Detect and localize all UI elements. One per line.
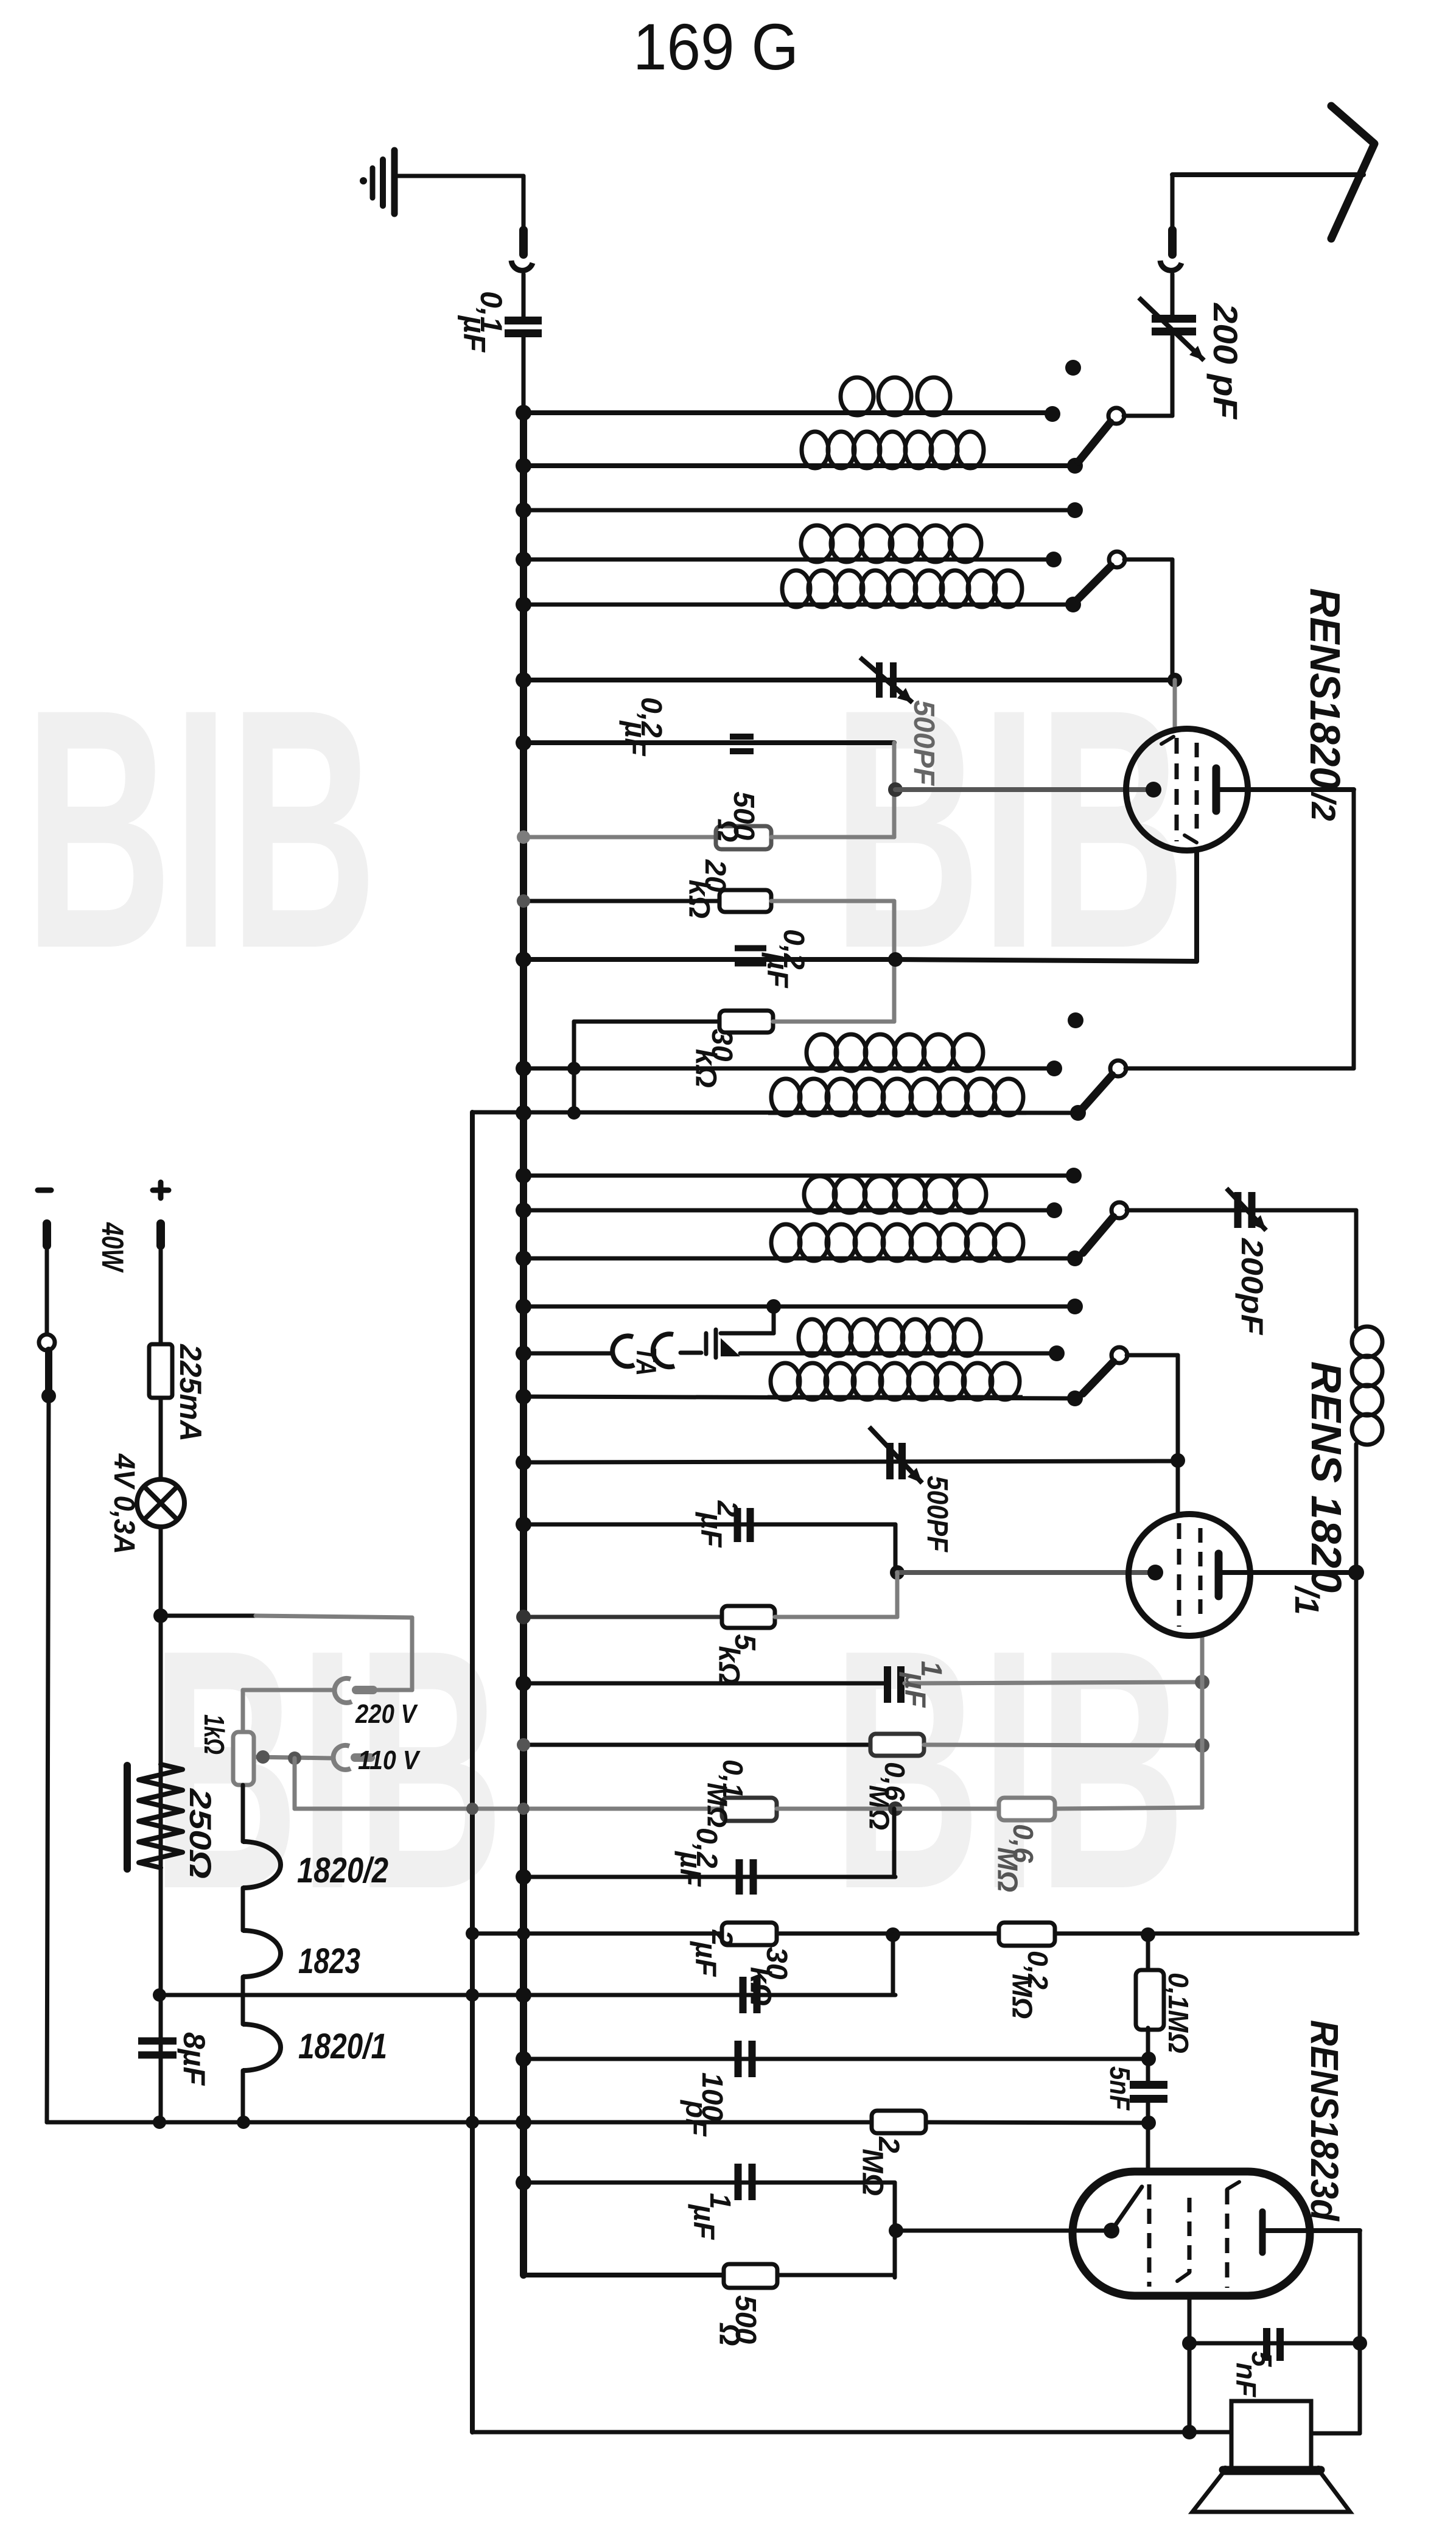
resistor 30kOhm + 0,2MOhm AF [466, 1923, 1357, 2019]
switch S1 [1065, 360, 1172, 461]
resistor 500 Ohm cathode V3 [523, 2253, 895, 2346]
svg-text:1kΩ: 1kΩ [198, 1714, 230, 1755]
capacitor 2uF cathode V2 [516, 1500, 895, 1573]
svg-text:MΩ: MΩ [1007, 1974, 1038, 2019]
svg-text:500PF: 500PF [908, 700, 940, 787]
svg-text:MΩ: MΩ [992, 1847, 1024, 1892]
capacitor 1uF cathode V3 [516, 2164, 1107, 2277]
svg-text:8µF: 8µF [177, 2032, 211, 2086]
tube V2 RENS1820/1 [1129, 1361, 1357, 1636]
antenna [1172, 106, 1374, 239]
svg-text:kΩ: kΩ [683, 880, 715, 919]
watermark BIB [24, 638, 1186, 1960]
resistor 5kOhm cathode V2 [516, 1573, 897, 1685]
capacitor 100pF [516, 2041, 1156, 2137]
wire L8 coil row [516, 1034, 1062, 1076]
switch S4 + variable capacitor 200pF osc [1083, 1188, 1356, 1336]
wire + trimmer 500PF IF [516, 1427, 1185, 1552]
svg-text:169 G: 169 G [633, 10, 799, 83]
mains tap 220V [161, 1616, 418, 1732]
wire L13 row [516, 1299, 1083, 1314]
svg-text:pF: pF [680, 2099, 712, 2137]
svg-text:250Ω: 250Ω [183, 1788, 217, 1879]
capacitor 0,2uF AF [516, 1809, 895, 1895]
second bus vertical [470, 1112, 475, 2432]
speaker [1192, 2343, 1360, 2512]
svg-text:Ω: Ω [712, 819, 744, 842]
capacitor 2uF row [153, 1929, 895, 2013]
resistor 2MOhm grid V3 [47, 2111, 1156, 2196]
resistor 0,1MOhm vertical [1136, 1935, 1194, 2084]
svg-text:500PF: 500PF [921, 1476, 953, 1552]
svg-text:/2: /2 [1304, 791, 1343, 821]
resistor 0,1MOhm + 0,6MOhm b grid bias row [295, 1636, 1202, 1892]
svg-text:200pF: 200pF [1235, 1238, 1269, 1336]
main bus vertical [520, 409, 527, 2275]
svg-text:BIB: BIB [24, 638, 377, 1019]
resistor 30kOhm screen [574, 1011, 894, 1113]
wire L9 coil row [472, 1079, 1086, 1121]
svg-text:1820/1: 1820/1 [298, 2027, 387, 2066]
phono jack TA + coil row L14 [516, 1306, 1065, 1376]
capacitor 5nF anode V3 [1182, 2231, 1367, 2432]
svg-text:Ω: Ω [713, 2323, 746, 2346]
svg-text:BIB: BIB [151, 1579, 504, 1960]
lamp 4V 0,3A [108, 1453, 184, 1995]
svg-text:0,1MΩ: 0,1MΩ [1163, 1972, 1194, 2053]
antenna jack J2 [1160, 175, 1181, 319]
wire L6 row + trimmer 500PF [516, 657, 1182, 787]
terminal minus [38, 1190, 51, 1334]
resistor 250 Ohm [127, 1527, 217, 2122]
wire L11 coil row [516, 1176, 1062, 1218]
wire row + capacitor 0,2uF grid V1 [516, 697, 894, 757]
capacitor 5nF grid V3 [1104, 2066, 1167, 2123]
wire L10 row [516, 1168, 1082, 1183]
capacitor 0,1uF antenna [458, 291, 542, 413]
resistor 500 Ohm cathode V1 [517, 791, 894, 849]
terminal plus [153, 1182, 169, 1344]
tube V1 RENS1820/2 [1126, 588, 1354, 850]
svg-text:5nF: 5nF [1104, 2066, 1136, 2111]
label 40W [96, 1222, 130, 1273]
svg-text:MΩ: MΩ [702, 1783, 733, 1828]
svg-text:1820/2: 1820/2 [297, 1851, 388, 1890]
switch S2 [1078, 552, 1172, 676]
svg-text:200 pF: 200 pF [1206, 303, 1245, 420]
svg-text:µF: µF [690, 1940, 722, 1977]
title 169 G [633, 10, 799, 83]
svg-text:TA: TA [631, 1347, 662, 1376]
wire bottom row [472, 2425, 1231, 2439]
svg-text:kΩ: kΩ [713, 1646, 745, 1685]
wire L15 coil row [516, 1363, 1083, 1406]
svg-text:110 V: 110 V [358, 1745, 421, 1775]
resistor 0,6MOhm a [517, 1734, 1209, 1830]
capacitor 1uF [516, 1661, 1209, 1708]
ground [360, 150, 523, 214]
resistor 20kOhm [517, 859, 894, 1022]
resistor 1kOhm tap + 110V [198, 1714, 421, 1809]
fuse 225mA [149, 1344, 208, 1480]
svg-text:225mA: 225mA [173, 1344, 208, 1442]
wire L3 row [516, 502, 1083, 518]
switch S3 [1068, 790, 1354, 1108]
wire L5 coil row [516, 570, 1081, 612]
svg-text:/1: /1 [1288, 1585, 1326, 1615]
svg-text:220 V: 220 V [355, 1699, 418, 1729]
svg-text:µF: µF [761, 952, 794, 989]
svg-text:µF: µF [458, 315, 492, 353]
ground jack J1 [511, 176, 533, 321]
svg-text:µF: µF [899, 1671, 931, 1708]
svg-text:µF: µF [674, 1850, 707, 1887]
tube V3 RENS1823d [1073, 2020, 1360, 2296]
capacitor 8uF [138, 2032, 211, 2086]
switch mains [39, 1334, 56, 2122]
wire cathode loop V1 [888, 743, 1150, 837]
svg-text:MΩ: MΩ [856, 2148, 889, 2195]
svg-text:nF: nF [1231, 2363, 1262, 2398]
wire L1 coil row [516, 377, 1060, 422]
switch S5 [1083, 1347, 1178, 1460]
variable capacitor 200pF antenna [1139, 298, 1245, 420]
svg-text:µF: µF [619, 720, 651, 757]
svg-text:4V 0,3A: 4V 0,3A [108, 1453, 140, 1554]
heater chain 1820/2 1823 1820/1 [243, 1732, 388, 2122]
svg-text:1823: 1823 [298, 1941, 360, 1981]
svg-text:µF: µF [695, 1511, 727, 1548]
svg-text:RENS1820: RENS1820 [1301, 588, 1349, 789]
svg-text:RENS 1820: RENS 1820 [1303, 1361, 1350, 1593]
wire cathode V2 [890, 1565, 1150, 1580]
wire L4 coil row [516, 525, 1062, 567]
svg-text:RENS1823d: RENS1823d [1303, 2020, 1346, 2222]
wire L2 coil row [516, 432, 1083, 474]
svg-text:40W: 40W [96, 1222, 130, 1273]
svg-text:µF: µF [688, 2203, 720, 2240]
capacitor 0,2uF screen V1 [516, 850, 1197, 989]
inductor RF choke + anode rail V2 [1348, 1210, 1382, 1934]
wire L12 coil row [516, 1224, 1083, 1266]
